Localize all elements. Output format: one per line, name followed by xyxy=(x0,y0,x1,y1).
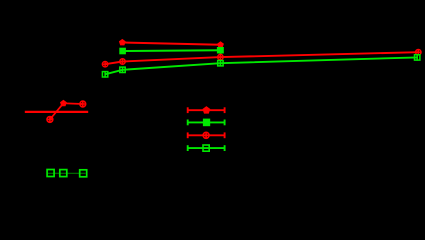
wire bottom faint green connector line xyxy=(48,172,86,174)
node series-C point 2 circle-plus xyxy=(120,59,126,65)
legend entry 4 green errorbar sample with square-plus xyxy=(188,145,225,151)
node bottom open green square 1 xyxy=(47,170,54,177)
wire series-B green square line xyxy=(123,49,221,52)
node series-D point 2 square-plus xyxy=(120,67,125,74)
legend entry 2 green errorbar sample with filled square xyxy=(188,120,225,126)
legend entry 2 filled square marker xyxy=(203,119,210,127)
wire series-D green square-plus line xyxy=(105,57,417,74)
legend entry 1 pentagon marker xyxy=(203,106,211,114)
wire error bar below green square B2 xyxy=(220,50,222,55)
node inset circle-plus lower-left xyxy=(47,116,53,122)
node bottom open green square 2 xyxy=(60,170,67,177)
legend entry 4 square-plus marker xyxy=(203,145,209,151)
node inset circle-plus right xyxy=(80,101,86,107)
node series-B point 1 filled square xyxy=(119,48,126,55)
node series-A point 2 filled pentagon xyxy=(217,41,224,48)
wire series-C red circle-plus line xyxy=(105,52,418,64)
node bottom open green square 3 xyxy=(80,170,87,177)
legend entry 3 red errorbar sample with circle-plus xyxy=(188,132,225,138)
node inset filled pentagon xyxy=(60,100,67,107)
node series-D point 1 square-plus xyxy=(102,71,107,78)
node series-C point 3 circle-plus xyxy=(218,54,224,60)
wire inset thick red horizontal line xyxy=(25,111,88,113)
wire series-A red pentagon line xyxy=(122,43,220,45)
legend entry 3 circle-plus marker xyxy=(203,132,209,138)
node series-D point 4 square-plus xyxy=(415,54,420,61)
wire dim error-bar cap below circle-plus C3 xyxy=(217,59,223,61)
node series-D point 3 square-plus xyxy=(218,60,223,67)
legend entry 1 red errorbar sample with pentagon xyxy=(188,107,225,113)
node series-B point 2 filled square xyxy=(217,47,224,54)
node series-C point 4 circle-plus xyxy=(415,49,421,55)
node series-A point 1 filled pentagon xyxy=(119,39,126,46)
wire inset red zigzag line xyxy=(50,103,83,119)
node series-C point 1 circle-plus xyxy=(102,61,108,67)
